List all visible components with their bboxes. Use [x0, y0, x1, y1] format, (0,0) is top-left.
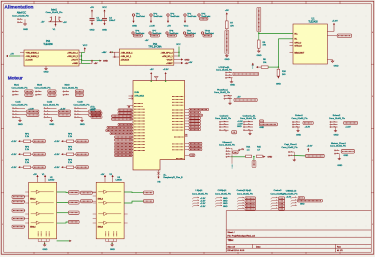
global label left of U4 row 6 — [130, 127, 134, 129]
svg-text:Conn_01x04_Pin: Conn_01x04_Pin — [282, 193, 299, 195]
capacitor C2 100nF — [103, 10, 105, 13]
global label Moteur_pince — [341, 150, 354, 153]
svg-text:Id: 1/1: Id: 1/1 — [337, 250, 343, 252]
svg-text:(TX): (TX) — [91, 107, 95, 109]
svg-text:I.3(m)1: I.3(m)1 — [196, 190, 204, 192]
svg-text:EN1,2: EN1,2 — [98, 198, 103, 200]
ground at CodeurC_A1 — [248, 129, 250, 131]
global label PhotoResist_ADC — [234, 98, 257, 101]
global label Codeuse_pince — [259, 123, 277, 126]
global labels right of U4 upper bank — [185, 109, 189, 111]
svg-text:Conn_01x04_Pin: Conn_01x04_Pin — [12, 104, 29, 106]
test point TP7 — [149, 32, 151, 34]
power +5V at U4 — [150, 72, 152, 81]
global label T at Ultrason1 — [233, 151, 238, 154]
svg-text:TestPoint: TestPoint — [153, 15, 162, 18]
global label LCD_Retroeclairage long — [233, 72, 259, 75]
svg-text:GND: GND — [49, 124, 54, 126]
pin stubs left of PS2 — [111, 51, 119, 53]
pin stubs right of PS2 — [174, 51, 179, 53]
GND flag right of PS2 — [181, 58, 183, 60]
svg-text:+5V: +5V — [150, 69, 154, 71]
ground at LCD connector — [231, 77, 232, 79]
global label B at CodeurC_A1 — [259, 120, 263, 123]
wires and labels right of U2 — [57, 191, 69, 194]
svg-text:+VIN_SO_1: +VIN_SO_1 — [162, 56, 174, 58]
svg-text:+3.3V: +3.3V — [200, 206, 206, 208]
wire junction to vertical label — [253, 157, 255, 161]
svg-text:+VBST: +VBST — [166, 63, 173, 65]
clock pins left of U4 — [127, 95, 133, 106]
svg-text:+3.3V: +3.3V — [54, 141, 60, 143]
svg-text:GND: GND — [232, 164, 234, 169]
ground below label column 1 — [225, 54, 228, 57]
resistor R6 470 — [258, 34, 260, 41]
global label left of U4 row 11 — [130, 143, 134, 145]
svg-text:KiCad E.D.A. 6.0.6: KiCad E.D.A. 6.0.6 — [228, 249, 246, 252]
svg-text:Conn_01x02_Pin: Conn_01x02_Pin — [330, 146, 347, 148]
svg-text:Conn_01x05_Pin: Conn_01x05_Pin — [237, 193, 254, 195]
global label right of U4 at notch — [185, 154, 189, 156]
test point TP5 — [198, 14, 200, 16]
svg-text:GND: GND — [223, 206, 228, 208]
svg-text:Conn_01x02_Pin: Conn_01x02_Pin — [62, 88, 79, 90]
svg-text:GTB.LO: GTB.LO — [295, 45, 303, 47]
svg-text:Conn_01x04_Pin: Conn_01x04_Pin — [43, 104, 60, 106]
global label left of U4 row 1 — [130, 109, 134, 111]
svg-text:TestPoint: TestPoint — [187, 15, 196, 18]
svg-text:File: ProjetRobotiqueVitraL.sc: File: ProjetRobotiqueVitraL.sch — [228, 234, 256, 237]
ground at Echou1 — [297, 126, 298, 128]
svg-text:+5V: +5V — [237, 96, 241, 98]
ground at Ultrason1 pin 4 — [231, 147, 232, 149]
svg-text:GND: GND — [102, 29, 107, 31]
svg-text:VCC: VCC — [102, 7, 107, 9]
svg-text:L293D: L293D — [48, 180, 55, 182]
global label at TP10 — [203, 34, 212, 37]
global labels right of U4 lower bank — [185, 143, 189, 145]
svg-text:+VIN_SO_2: +VIN_SO_2 — [67, 56, 79, 58]
svg-text:AlimVCC: AlimVCC — [17, 12, 27, 15]
title block — [226, 211, 371, 253]
power +3.3V at Cod3 — [81, 107, 88, 109]
power flag at U4 — [154, 77, 158, 81]
ground at Cod2 — [50, 116, 52, 118]
svg-text:CodeurC: CodeurC — [220, 114, 229, 117]
pin stubs left of PS1 — [20, 52, 24, 54]
power +3.3V at U4 — [165, 72, 167, 81]
global label left of U4 row 15 — [130, 154, 134, 156]
global label left of U4 row 12 — [130, 146, 134, 148]
svg-text:GND: GND — [90, 29, 95, 31]
svg-text:L293D: L293D — [116, 180, 123, 182]
wires and labels right of U3 — [124, 191, 143, 194]
svg-text:+VIN_SUB_1: +VIN_SUB_1 — [121, 52, 134, 54]
svg-text:+3.3V: +3.3V — [11, 167, 17, 169]
svg-text:XTR_MXA: XTR_MXA — [135, 95, 145, 98]
svg-text:+48V: +48V — [102, 52, 108, 54]
wire to PS1 input — [9, 55, 20, 57]
wire R8 to junction — [268, 66, 278, 68]
svg-text:PS1: PS1 — [46, 41, 51, 43]
svg-text:Conn_01x03_Pin: Conn_01x03_Pin — [216, 69, 233, 71]
test point TP10 — [201, 32, 203, 34]
wire from U1 pin 2 down — [278, 38, 293, 40]
svg-text:GND: GND — [225, 59, 230, 61]
svg-text:Capt_Pince1: Capt_Pince1 — [284, 143, 297, 146]
svg-text:Moteur_Pince1: Moteur_Pince1 — [331, 142, 346, 145]
svg-text:EN3,4: EN3,4 — [30, 226, 35, 228]
svg-text:Conn_01x02_Pin: Conn_01x02_Pin — [282, 147, 299, 149]
svg-text:+3.3V: +3.3V — [149, 26, 155, 28]
svg-text:TLE2426: TLE2426 — [308, 22, 318, 24]
global label at TP8 — [168, 34, 177, 37]
svg-text:Cod1: Cod1 — [15, 102, 21, 104]
svg-text:B: B — [372, 96, 373, 98]
svg-text:+3.3V: +3.3V — [11, 154, 17, 156]
svg-text:(RX): (RX) — [91, 110, 95, 112]
global label Chargeur_bat — [297, 199, 322, 202]
global label Speed at Echou1 — [303, 121, 313, 124]
ground at U3 — [105, 239, 107, 242]
svg-text:+5V: +5V — [145, 40, 149, 42]
wire from label to U1 pin 1 — [259, 32, 293, 34]
vertical global label LCD_Retroeclairage_PWM — [225, 30, 229, 54]
global label left of U4 row 9 — [130, 136, 134, 138]
global label Speed at Echou2 — [344, 121, 358, 124]
svg-text:Mot1: Mot1 — [14, 84, 20, 87]
ground at Cod3 — [81, 116, 83, 118]
svg-text:+VOUT: +VOUT — [71, 59, 79, 61]
svg-text:Conn_01x02_Pin: Conn_01x02_Pin — [12, 16, 30, 18]
svg-text:Conn_01x04_Pin: Conn_01x04_Pin — [215, 118, 232, 120]
svg-text:Conn_01x03_Pin: Conn_01x03_Pin — [329, 118, 346, 120]
svg-text:+5.0V: +5.0V — [307, 146, 313, 148]
svg-text:MBA-BIOT: MBA-BIOT — [295, 51, 305, 54]
test point TP6 — [132, 32, 134, 34]
svg-text:PS2: PS2 — [153, 44, 158, 46]
svg-text:GND: GND — [237, 126, 242, 128]
pin below U4 to Raspberry connector — [158, 170, 160, 173]
svg-text:GND: GND — [42, 249, 47, 251]
vertical global label Echo — [252, 160, 256, 167]
test point TP9 — [183, 32, 185, 34]
svg-text:EN3,4: EN3,4 — [98, 226, 103, 228]
global label left of U4 row 14 — [130, 151, 134, 153]
svg-text:+5V: +5V — [33, 174, 37, 176]
svg-text:100nF: 100nF — [109, 20, 116, 22]
svg-text:EN1,2: EN1,2 — [30, 198, 35, 200]
pin stub below PS1 to ground — [45, 66, 47, 67]
svg-text:~VOUT: ~VOUT — [166, 59, 174, 61]
svg-text:VCC: VCC — [176, 44, 181, 46]
svg-text:GND: GND — [337, 165, 342, 167]
svg-text:Conn_01x04_Pin: Conn_01x04_Pin — [240, 118, 257, 120]
svg-text:GND: GND — [276, 84, 281, 86]
svg-text:+3.3V: +3.3V — [305, 127, 311, 129]
svg-text:U3B0(2.13: U3B0(2.13 — [286, 191, 297, 193]
svg-text:+5V: +5V — [94, 63, 98, 65]
global label left of U4 row 13 — [130, 149, 134, 151]
capacitor C1 100nF — [91, 10, 93, 13]
svg-text:GND: GND — [296, 135, 301, 137]
+5V flag right of PS2 — [181, 62, 183, 64]
ground below U1 pin — [327, 59, 332, 61]
ground at J1 — [24, 22, 27, 25]
svg-text:+VIN_SPO_4: +VIN_SPO_4 — [161, 52, 174, 54]
svg-text:Conn_01x02_Pin: Conn_01x02_Pin — [12, 88, 29, 90]
svg-text:16: 16 — [185, 135, 187, 137]
svg-text:TestPoint: TestPoint — [136, 15, 145, 18]
global label at TP7 — [151, 34, 160, 37]
svg-text:+5V: +5V — [10, 54, 14, 56]
svg-text:~VIN_SHDN_1: ~VIN_SHDN_1 — [25, 52, 39, 54]
global label left of U4 row 3 — [130, 115, 134, 117]
global label C1D — [298, 197, 304, 200]
pin stubs left of U1 — [290, 42, 294, 44]
svg-text:Conn_01x03_Pin: Conn_01x03_Pin — [46, 12, 64, 14]
svg-text:TPS_B-CMA: TPS_B-CMA — [148, 46, 162, 49]
global label at TP5 — [200, 18, 208, 21]
svg-text:TLE4266: TLE4266 — [43, 44, 53, 46]
ground at U2 — [37, 239, 39, 242]
svg-text:+3.3V: +3.3V — [345, 127, 351, 129]
svg-text:Conn_01x02_Pin: Conn_01x02_Pin — [35, 88, 52, 90]
svg-text:+5.CON: +5.CON — [25, 59, 33, 61]
svg-text:Sheet: /: Sheet: / — [228, 231, 235, 234]
ground below R10 — [277, 76, 279, 78]
power +5V above R7 — [226, 12, 228, 15]
svg-text:AL,: AL, — [163, 173, 167, 176]
svg-text:GND: GND — [344, 155, 349, 157]
svg-text:Echou1: Echou1 — [295, 115, 303, 117]
power +3.3V at Cod2 — [50, 107, 57, 109]
svg-text:IN-: IN- — [295, 39, 298, 41]
global label at TP6 — [134, 34, 143, 37]
test point TP3 — [167, 14, 169, 16]
svg-text:Conn_01x02_Pin: Conn_01x02_Pin — [214, 92, 231, 94]
svg-text:Inter1: Inter1 — [51, 9, 58, 12]
power +3.3V at Cod1 — [19, 107, 26, 109]
wire PS1 to GND flag — [82, 60, 100, 62]
vertical global label Bluetooth_State — [257, 7, 261, 32]
svg-text:PhotoRes1: PhotoRes1 — [217, 88, 229, 91]
svg-text:GND: GND — [132, 26, 137, 28]
svg-text:+5V: +5V — [225, 10, 229, 12]
svg-text:+3.3V: +3.3V — [54, 154, 60, 156]
resistor R7 470 — [226, 16, 228, 21]
test point TP4 — [184, 14, 186, 16]
svg-text:~VIN_SHDN_2: ~VIN_SHDN_2 — [25, 56, 39, 58]
svg-text:+VIN_SO_1: +VIN_SO_1 — [121, 56, 133, 58]
svg-text:GND: GND — [334, 135, 339, 137]
pin stubs right of PS1 and wires — [79, 52, 82, 54]
svg-text:GND: GND — [18, 124, 23, 126]
svg-text:Moteur: Moteur — [8, 75, 23, 81]
svg-text:GND: GND — [268, 157, 273, 159]
ground at Moteur_Pince1 — [338, 154, 340, 158]
svg-text:B: B — [2, 96, 3, 98]
svg-text:+5V: +5V — [189, 62, 193, 64]
svg-text:Rev:: Rev: — [337, 246, 342, 248]
svg-text:VCC: VCC — [83, 45, 88, 47]
svg-text:+3.3V: +3.3V — [54, 167, 60, 169]
svg-text:Size: A4: Size: A4 — [228, 245, 236, 248]
global label left of U4 row 7 — [130, 130, 134, 132]
svg-text:Conn_01x03_Pin: Conn_01x03_Pin — [292, 118, 309, 120]
global label left of U4 row 5 — [130, 124, 134, 126]
svg-text:+GND: +GND — [72, 63, 78, 65]
svg-text:GND: GND — [80, 124, 85, 126]
wire to Pince_capteur label — [293, 155, 305, 157]
global labels left of U2 — [12, 195, 24, 198]
svg-text:Cod3: Cod3 — [77, 102, 83, 104]
svg-text:Conn_01x05_Pin: Conn_01x05_Pin — [192, 193, 209, 195]
svg-text:GND: GND — [103, 61, 108, 63]
svg-text:Date:: Date: — [256, 245, 261, 248]
svg-text:TestPoint: TestPoint — [170, 15, 179, 18]
svg-text:+5V: +5V — [41, 21, 45, 23]
ground below R6 — [257, 50, 260, 53]
ground at Capt_Pince1 — [293, 151, 294, 153]
U4 right pin names — [172, 96, 184, 98]
ground at Echou2 — [335, 126, 336, 128]
svg-text:GND: GND — [44, 72, 49, 74]
svg-text:Corina3: Corina3 — [274, 189, 282, 192]
svg-text:GND: GND — [230, 84, 235, 86]
svg-text:+5.0V: +5.0V — [332, 21, 338, 23]
svg-text:+EN.AUX: +EN.AUX — [121, 58, 130, 61]
global label left of U4 row 4 — [130, 118, 134, 120]
svg-text:+5V: +5V — [101, 174, 105, 176]
global label left of U4 row 10 — [130, 139, 134, 141]
svg-text:Cod2: Cod2 — [47, 102, 53, 104]
svg-text:Conn_01x04_Pin: Conn_01x04_Pin — [74, 104, 91, 106]
microcontroller U4 ESP32 — [133, 81, 185, 170]
svg-text:CH0(m)1: CH0(m)1 — [218, 190, 228, 192]
power arrow near R8 — [252, 63, 254, 66]
global labels between U2 and U3 — [81, 191, 93, 194]
svg-text:GND: GND — [334, 65, 339, 67]
svg-text:+3.3V: +3.3V — [163, 69, 169, 71]
test point TP2 — [150, 14, 152, 16]
svg-text:Echou2: Echou2 — [333, 115, 341, 117]
global label at TP9 — [185, 34, 194, 37]
svg-text:RUN: RUN — [135, 92, 140, 94]
resistor R10 240 — [277, 67, 279, 69]
pin stubs right of U3 — [124, 213, 128, 215]
wire PS1 to +5V arrow — [82, 62, 91, 64]
global label at CodeurC pin 4 — [224, 129, 226, 131]
svg-text:RaspberryPi_Pins_B: RaspberryPi_Pins_B — [163, 176, 183, 179]
ground at PhotoRes1 — [229, 95, 230, 97]
svg-text:+VIN_SO_1: +VIN_SO_1 — [67, 52, 79, 54]
svg-text:Title:: Title: — [228, 239, 234, 242]
svg-text:Conn_01x04_Pin: Conn_01x04_Pin — [219, 144, 236, 146]
svg-text:Mot2: Mot2 — [37, 84, 43, 87]
svg-text:GND: GND — [23, 29, 28, 31]
svg-text:GND: GND — [259, 127, 264, 129]
svg-text:Coutm(2.3(m)1: Coutm(2.3(m)1 — [237, 189, 252, 192]
power VCC at PS1 output — [84, 47, 86, 52]
svg-text:Mot3: Mot3 — [65, 84, 71, 87]
svg-text:GND: GND — [300, 203, 305, 205]
svg-text:VCC: VCC — [184, 26, 189, 28]
svg-text:+5V: +5V — [63, 22, 67, 24]
svg-text:GND: GND — [110, 249, 115, 251]
pin 16 stub right of U4 — [185, 135, 188, 137]
ground at Cod1 — [19, 116, 21, 118]
global label left of U4 row 2 — [130, 112, 134, 114]
svg-text:GND: GND — [257, 55, 262, 57]
test point TP8 — [166, 32, 168, 34]
svg-text:+5V: +5V — [90, 7, 94, 9]
U4 left pin names — [134, 103, 143, 105]
global label left of U4 row 8 — [130, 133, 134, 135]
global label OUT_ART — [327, 35, 337, 37]
test point TP1 — [132, 14, 134, 16]
global label Pince_capteur — [306, 154, 325, 157]
svg-text:26: 26 — [128, 106, 130, 108]
svg-text:Conn_01x05_Pin: Conn_01x05_Pin — [215, 193, 232, 195]
svg-text:+3.3V: +3.3V — [11, 141, 17, 143]
svg-text:Alimentation: Alimentation — [4, 5, 33, 11]
svg-text:+5V: +5V — [167, 26, 171, 28]
svg-text:CodeurC_A1: CodeurC_A1 — [243, 114, 256, 117]
wire U2 to ground arrow — [57, 240, 70, 242]
svg-text:GPI.LO: GPI.LO — [295, 42, 302, 44]
